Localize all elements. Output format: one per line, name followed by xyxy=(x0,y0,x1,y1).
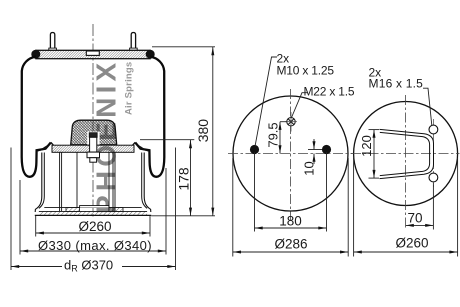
dim Ø260 left view xyxy=(36,216,150,237)
bellows outline right xyxy=(135,57,164,177)
dim 180 xyxy=(255,152,327,232)
center bolt xyxy=(87,133,100,163)
dim dR Ø370 xyxy=(11,148,176,271)
svg-text:120: 120 xyxy=(359,135,374,157)
piston ribs xyxy=(60,152,115,211)
leader M22 xyxy=(291,93,307,118)
stud right (filled) xyxy=(322,145,331,154)
bellows outline left xyxy=(22,57,51,177)
center notch xyxy=(86,51,99,55)
stud left xyxy=(49,33,57,51)
M22 hole symbol xyxy=(287,118,295,126)
svg-text:M22 x 1.5: M22 x 1.5 xyxy=(304,85,355,99)
leader M16 xyxy=(423,88,432,125)
svg-text:Ø286: Ø286 xyxy=(274,236,307,251)
dim Ø260 right view xyxy=(354,158,458,257)
piston top plate xyxy=(52,145,134,152)
leader 2x M10 xyxy=(255,57,277,147)
circle Ø260 xyxy=(354,102,458,206)
dim 178 xyxy=(190,140,192,216)
svg-text:Air Springs: Air Springs xyxy=(124,62,135,115)
dim Ø330 (max. Ø340) xyxy=(20,168,166,255)
dim 70 xyxy=(406,183,434,230)
svg-text:Ø260: Ø260 xyxy=(78,219,111,234)
svg-text:10: 10 xyxy=(302,161,317,175)
dim 380 xyxy=(212,47,214,216)
centerline vertical xyxy=(290,89,292,221)
top plate xyxy=(36,50,150,58)
dim baseline right xyxy=(151,215,215,217)
stud right xyxy=(130,33,138,51)
svg-text:178: 178 xyxy=(175,167,191,191)
fold corner left xyxy=(51,142,54,145)
piston skirt right xyxy=(144,153,151,213)
rubber buffer dome xyxy=(71,120,117,145)
dim 380 top reference line xyxy=(152,46,215,48)
piston base xyxy=(35,206,151,216)
svg-text:380: 380 xyxy=(195,119,211,143)
bead ring left xyxy=(31,50,40,59)
stud left (filled) xyxy=(250,145,259,154)
svg-text:Ø330 (max. Ø340): Ø330 (max. Ø340) xyxy=(38,238,152,253)
svg-text:M10 x 1.25: M10 x 1.25 xyxy=(277,64,335,78)
centerline horizontal xyxy=(351,153,460,155)
circle Ø286 xyxy=(233,96,348,211)
dim 120 xyxy=(369,130,380,179)
svg-text:79.5: 79.5 xyxy=(265,122,280,147)
centerline vertical xyxy=(405,95,407,230)
bracket xyxy=(380,129,434,178)
dim 178 reference line xyxy=(140,139,194,141)
M16 hole top xyxy=(429,125,438,134)
dim Ø286 xyxy=(233,158,348,257)
svg-text:70: 70 xyxy=(407,211,422,226)
hole column centerline xyxy=(432,119,434,189)
dim 10 xyxy=(308,139,322,164)
svg-text:Ø260: Ø260 xyxy=(395,236,428,251)
centerline horizontal xyxy=(228,153,353,155)
piston skirt left xyxy=(35,153,42,213)
svg-text:180: 180 xyxy=(279,214,302,229)
centerline left view xyxy=(92,24,94,219)
fold corner right xyxy=(133,142,136,145)
bead ring right xyxy=(146,50,155,59)
dim 79.5 xyxy=(280,122,287,154)
M16 hole bottom xyxy=(429,173,438,182)
svg-text:M16 x 1.5: M16 x 1.5 xyxy=(369,77,424,91)
